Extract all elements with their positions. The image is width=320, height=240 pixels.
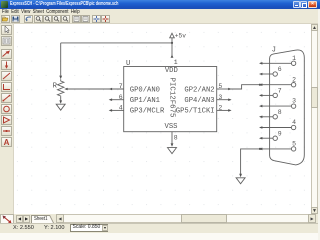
svg-text:VDD: VDD [165,67,178,75]
wire J5 to ground [241,149,260,176]
canvas [14,24,311,214]
status bar [0,223,320,233]
svg-text:GP5/T1CKI: GP5/T1CKI [176,108,215,116]
connector J pin 6 [259,66,282,76]
svg-text:GP0/AN0: GP0/AN0 [130,86,160,94]
ground J [236,178,245,184]
pin 4 GP3/MCLR [110,109,124,111]
wire pot bottom [60,96,62,102]
connector J pin 1 [259,55,296,66]
bottom light strip [0,233,320,240]
pin 1 VDD [171,54,174,57]
ground pot [56,104,65,110]
sheet tab [31,215,54,223]
title bar [0,0,320,9]
svg-text:GP2/AN2: GP2/AN2 [184,86,214,94]
svg-text:9: 9 [278,130,282,137]
svg-text:5: 5 [292,141,296,148]
connector J pin 5 [259,141,296,152]
svg-text:GP3/MCLR: GP3/MCLR [130,108,165,116]
power +5v symbol [170,33,175,38]
wire +5v rail horizontal [61,42,172,44]
pin 5 GP2/AN2 [217,88,231,90]
potentiometer R [58,79,64,96]
svg-text:7: 7 [119,83,123,90]
svg-text:A: A [4,138,10,146]
svg-text:6: 6 [278,66,282,73]
connector J pin 3 [259,98,296,109]
svg-text:5: 5 [218,83,222,90]
svg-text:U: U [126,60,130,68]
ground VSS [168,148,177,154]
svg-text:PIC12F675: PIC12F675 [167,78,175,118]
schematic svg [14,24,311,214]
connector J pin 7 [259,88,282,98]
h scrollbar [56,214,308,223]
wire +5v rail vertical [171,38,173,56]
svg-text:4: 4 [119,105,123,112]
svg-text:6: 6 [119,94,123,101]
connector J pin 9 [259,130,282,140]
svg-text:1: 1 [174,59,178,66]
wire pot wiper to GP0 [65,88,123,90]
svg-text:8: 8 [278,109,282,116]
connector J pin 4 [259,119,296,130]
menu bar [0,9,320,15]
connector J pin 2 [259,76,296,87]
svg-text:7: 7 [278,88,282,95]
svg-text:2: 2 [218,105,222,112]
connector J pin 8 [259,109,282,119]
junction node +5v tee [171,42,173,44]
svg-text:1: 1 [292,55,296,62]
top toolbar [0,15,320,24]
svg-text:4: 4 [292,119,296,126]
bottom tab / hscroll row [0,214,320,223]
svg-text:R: R [53,83,58,91]
wire GP2 to J pin2 [231,85,260,89]
svg-text:8: 8 [174,135,178,142]
pin 3 GP4/AN3 [217,99,231,101]
left toolbar [0,24,14,215]
IC U PIC12F675 box [124,67,217,132]
connector J DB9 outline [270,50,305,165]
wire pot top [60,43,62,76]
vertical scrollbar [311,24,318,214]
pin 2 GP5/T1CKI [217,109,231,111]
svg-text:3: 3 [292,98,296,105]
svg-text:3: 3 [218,94,222,101]
right window edge [318,9,320,240]
svg-text:+5v: +5v [175,32,186,39]
svg-text:GP4/AN3: GP4/AN3 [184,97,214,105]
svg-text:VSS: VSS [165,123,178,131]
svg-text:J: J [272,47,276,55]
pin 8 VSS [171,132,173,146]
svg-text:2: 2 [292,76,296,83]
svg-text:GP1/AN1: GP1/AN1 [130,97,160,105]
pin 6 GP1/AN1 [110,99,124,101]
